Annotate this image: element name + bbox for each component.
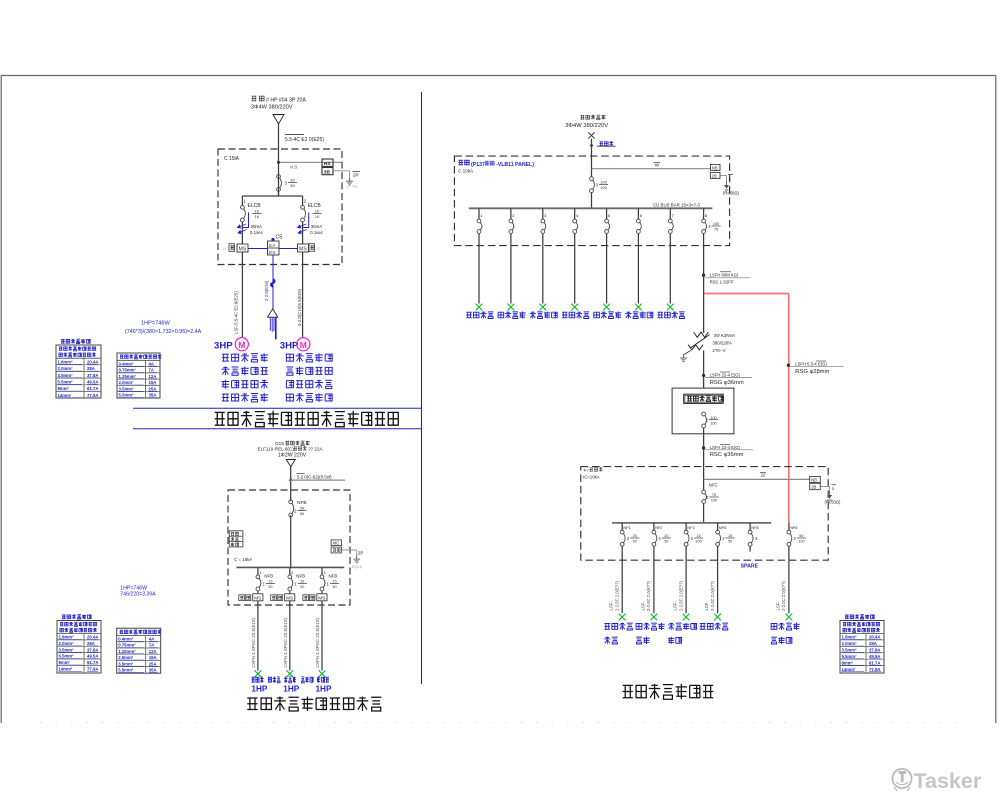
svg-text:Tasker: Tasker xyxy=(914,769,982,793)
svg-text:5: 5 xyxy=(608,213,611,218)
svg-text:0.1sec: 0.1sec xyxy=(250,230,264,235)
branch top bus D1 xyxy=(242,195,302,197)
main breaker D3 xyxy=(590,177,594,181)
svg-text:0.4mm²: 0.4mm² xyxy=(118,637,134,642)
panel dashed box D1 xyxy=(218,149,342,265)
svg-text:20: 20 xyxy=(664,534,668,538)
relay box NB D3 xyxy=(710,164,720,170)
svg-text:100: 100 xyxy=(600,185,607,190)
diagram3 header line1 CJK xyxy=(580,115,605,120)
meter name plate xyxy=(684,394,724,403)
svg-text:5.5mm²: 5.5mm² xyxy=(59,654,75,659)
svg-text:3: 3 xyxy=(729,176,732,181)
column divider blue vertical xyxy=(421,92,423,684)
branch 1 feeder wire down D2 xyxy=(257,601,259,671)
wire ELCB to MS right xyxy=(302,222,304,244)
svg-text:3.5mm²: 3.5mm² xyxy=(118,661,134,666)
wire 2B to earth D3 xyxy=(720,174,727,176)
branch 8 wire below breaker D3 xyxy=(703,233,705,245)
load 4 name blue line1 xyxy=(700,623,728,630)
branch 1 breaker NFB D2 xyxy=(256,575,260,579)
wire main vertical D1 upper xyxy=(278,124,280,196)
junction dot feeder label2 xyxy=(702,374,705,377)
svg-text:6: 6 xyxy=(640,213,643,218)
svg-text:49.5A: 49.5A xyxy=(87,654,98,659)
svg-text:O1S: O1S xyxy=(275,441,284,446)
svg-text:# HP #04 3P 20A: # HP #04 3P 20A xyxy=(266,98,306,104)
bottom branch 5 spare stub xyxy=(749,546,751,551)
meter label blue underlined xyxy=(599,141,613,146)
branch 2 drop wire D3 xyxy=(510,208,512,219)
copper busbar D3 xyxy=(469,207,713,209)
branch 4 breaker D3 xyxy=(573,219,577,223)
svg-text:35A: 35A xyxy=(149,393,157,398)
svg-text:NB: NB xyxy=(712,165,718,170)
svg-text:RSC 1 S2FF: RSC 1 S2FF xyxy=(710,280,734,285)
svg-text:1E: 1E xyxy=(255,209,260,214)
svg-text:1: 1 xyxy=(262,581,265,586)
branch 4 feeder to load D3 xyxy=(574,246,576,304)
bottom branch 5 drop xyxy=(749,523,751,531)
wire to NB box bottom xyxy=(704,478,810,480)
branch 7 existing-equipment label D3 xyxy=(658,312,685,319)
branch 1 wire drop D2 xyxy=(257,567,259,575)
svg-text:3.5mm²: 3.5mm² xyxy=(58,373,74,378)
svg-text:2-2.0C 2.0(E??): 2-2.0C 2.0(E??) xyxy=(646,581,651,611)
bottom branch 4 drop xyxy=(717,523,719,531)
svg-text:(R≤50Ω): (R≤50Ω) xyxy=(723,191,740,196)
door label group 5 blue D2 xyxy=(317,677,329,683)
svg-text:1.6mm²: 1.6mm² xyxy=(58,360,74,365)
svg-text:3B: 3B xyxy=(324,169,331,175)
load 3 name blue line2 xyxy=(668,637,682,644)
svg-text:8: 8 xyxy=(705,213,708,218)
contactor box MC D2 xyxy=(331,540,341,546)
branch 3 existing-equipment label D3 xyxy=(530,312,558,319)
relay box 2B D3 xyxy=(710,172,720,178)
wire right branch drop xyxy=(302,196,304,206)
svg-text:28A: 28A xyxy=(87,366,95,371)
electrode lines blue xyxy=(269,317,271,330)
svg-text:0.75mm²: 0.75mm² xyxy=(119,368,137,373)
svg-text:50: 50 xyxy=(728,540,732,544)
svg-text:100: 100 xyxy=(600,180,607,185)
branch 1 wire below breaker D3 xyxy=(478,233,480,245)
wire 3B to earth xyxy=(333,170,350,172)
svg-text:35A: 35A xyxy=(149,668,157,673)
svg-text:100: 100 xyxy=(798,540,804,544)
svg-text:NF6: NF6 xyxy=(790,525,797,530)
title1 新設交替運轉控制盤電源單線圖 xyxy=(215,411,399,427)
svg-text:30: 30 xyxy=(332,585,336,589)
bottom branch 3 wire to load xyxy=(685,546,687,613)
earth electrode D2 xyxy=(356,556,358,559)
contactor box EA ES xyxy=(268,241,280,255)
svg-text:30mA: 30mA xyxy=(251,224,263,229)
svg-text:50: 50 xyxy=(633,540,637,544)
svg-text:2-2.0(C-62)(0.5sf): 2-2.0(C-62)(0.5sf) xyxy=(297,475,332,480)
branch 1 wire to MS D2 xyxy=(257,591,259,594)
svg-text:LSF-: LSF- xyxy=(704,601,709,611)
wire to NB box D3 xyxy=(592,168,711,170)
load 3 name blue line1 xyxy=(668,623,697,630)
svg-text:380/220V-: 380/220V- xyxy=(712,340,733,345)
bottom branch 1 drop xyxy=(621,523,623,531)
svg-text:37.8A: 37.8A xyxy=(87,373,98,378)
branch 7 breaker D3 xyxy=(668,219,672,223)
svg-text:2: 2 xyxy=(294,508,297,513)
wire ampacity table bottom-left A xyxy=(62,615,91,620)
tap arrow D3 xyxy=(589,143,593,146)
panel name blue label D3 xyxy=(459,160,470,164)
svg-text:CS: CS xyxy=(276,235,284,241)
branch 5 load X D3 xyxy=(603,304,610,311)
svg-text:-VLB11 PANEL): -VLB11 PANEL) xyxy=(496,162,534,168)
CS node dot blue xyxy=(272,238,274,240)
svg-text:2B: 2B xyxy=(712,173,717,178)
svg-text:2-2.0C 2.0(E??): 2-2.0C 2.0(E??) xyxy=(710,581,715,611)
svg-text:30: 30 xyxy=(268,585,272,589)
transformer neutral earth stub xyxy=(684,350,691,354)
svg-text:77.9A: 77.9A xyxy=(87,393,98,398)
bottom branch 4 breaker xyxy=(716,530,720,534)
svg-text:12A: 12A xyxy=(149,649,157,654)
svg-text:ELF119·REL 6(C),: ELF119·REL 6(C), xyxy=(258,446,296,451)
junction dot feeder label1 xyxy=(702,274,705,277)
branch 1 aux boxes D2 xyxy=(239,595,245,601)
node junction at HS wire xyxy=(277,161,279,163)
door label group 3 blue D2 xyxy=(284,677,296,683)
red wire junction dot xyxy=(787,364,790,367)
svg-text:2: 2 xyxy=(291,570,294,575)
svg-text:MS: MS xyxy=(239,247,247,253)
diagram1 source header CJK+spec line1 xyxy=(252,96,265,101)
bottom branch 1 wire to load xyxy=(621,546,623,613)
svg-text:LSF-: LSF- xyxy=(775,601,780,611)
branch 2 load X D3 xyxy=(508,304,515,311)
branch 2 wire below breaker D3 xyxy=(510,233,512,245)
svg-text:2?0--V: 2?0--V xyxy=(712,348,725,353)
svg-text:100: 100 xyxy=(710,416,716,420)
svg-text:14mm²: 14mm² xyxy=(59,667,73,672)
svg-text:1K: 1K xyxy=(255,214,260,219)
red wire vertical xyxy=(788,294,790,523)
branch 5 feeder to load D3 xyxy=(606,246,608,304)
svg-text:NF5: NF5 xyxy=(719,525,726,530)
svg-text:2.0mm²: 2.0mm² xyxy=(59,641,75,646)
svg-text:1Φ2W 220V: 1Φ2W 220V xyxy=(278,452,307,458)
svg-text:2: 2 xyxy=(304,199,307,204)
svg-text:RSG φ36mm: RSG φ36mm xyxy=(710,380,744,386)
incoming feeder triangle D2 xyxy=(286,460,295,467)
title3 新設電源單線圖 xyxy=(623,684,714,700)
branch 1 load X D3 xyxy=(476,304,483,311)
branch 2 feeder to load D3 xyxy=(510,246,512,304)
svg-text:20.4A: 20.4A xyxy=(87,360,98,365)
earth electrode D1 top-right xyxy=(349,178,351,181)
svg-text:LSFH-1.6PVC 22.6(E19): LSFH-1.6PVC 22.6(E19) xyxy=(251,617,256,667)
svg-text:1HP: 1HP xyxy=(251,684,267,693)
svg-text:CU BUS BAR 15×3×?-3: CU BUS BAR 15×3×?-3 xyxy=(653,203,700,208)
svg-text:(P137: (P137 xyxy=(471,162,485,168)
blue control wire right xyxy=(279,248,298,250)
svg-text:15A: 15A xyxy=(149,380,157,385)
svg-text:61.7A: 61.7A xyxy=(869,660,880,665)
wire ampacity table top-left A xyxy=(61,339,90,344)
title2 新設防火門電源單線圖 xyxy=(247,697,381,712)
svg-text:1K: 1K xyxy=(315,214,320,219)
branch 3 breaker NFB D2 xyxy=(320,575,324,579)
svg-text:NF1: NF1 xyxy=(623,525,630,530)
branch 3 feeder wire down D2 xyxy=(321,601,323,671)
svg-text:LSFH 60M KG): LSFH 60M KG) xyxy=(710,273,739,278)
incoming feeder triangle D1 xyxy=(273,115,284,125)
branch 4 existing-equipment label D3 xyxy=(562,312,589,319)
svg-text:LSFH 22-4 E(G): LSFH 22-4 E(G) xyxy=(710,373,741,378)
branch 3 wire to MS D2 xyxy=(321,591,323,594)
bottom branch 2 wire to load xyxy=(653,546,655,613)
cable tap label D2 xyxy=(297,473,305,475)
branch 3 feeder to load D3 xyxy=(542,246,544,304)
svg-text:15: 15 xyxy=(728,534,732,538)
svg-text:3: 3 xyxy=(596,182,599,187)
svg-text:20: 20 xyxy=(290,178,295,183)
branch 5 drop wire D3 xyxy=(606,208,608,219)
svg-text:4-2.0(C19)5.5(E25): 4-2.0(C19)5.5(E25) xyxy=(297,288,302,326)
float switch triangle xyxy=(268,309,278,317)
blue wire ES down xyxy=(272,255,274,309)
wire main to bus D2 xyxy=(290,515,292,567)
blue control wire left xyxy=(248,248,268,250)
bottom branch 3 drop xyxy=(685,523,687,531)
aux box below MC D2 xyxy=(331,547,341,553)
relay box 3B xyxy=(322,168,333,175)
svg-text:30mA: 30mA xyxy=(311,224,323,229)
svg-text:2: 2 xyxy=(706,495,709,500)
branch bus D2 xyxy=(236,566,344,568)
door label group 2 blue D2 xyxy=(268,677,280,683)
load 5 name blue line2 xyxy=(771,637,792,644)
svg-text:77.9A: 77.9A xyxy=(87,667,98,672)
svg-text:RSG φ28mm: RSG φ28mm xyxy=(795,369,829,375)
svg-text:8mm²: 8mm² xyxy=(58,386,70,391)
branch 2 wire drop D2 xyxy=(289,567,291,575)
svg-text:2: 2 xyxy=(722,536,725,541)
wire into bottom panel xyxy=(703,467,705,490)
svg-text:HS: HS xyxy=(324,161,331,167)
branch 1 load point X D2 xyxy=(255,670,262,677)
svg-text:LSF-: LSF- xyxy=(609,601,614,611)
svg-text:2-2.0(E19): 2-2.0(E19) xyxy=(264,280,269,301)
svg-text:2: 2 xyxy=(627,536,630,541)
svg-text:(746*3)/(380×1.732×0.95)=2.4A: (746*3)/(380×1.732×0.95)=2.4A xyxy=(125,329,202,335)
trip jumper blue right xyxy=(303,213,309,228)
svg-text:3.5mm²: 3.5mm² xyxy=(59,647,75,652)
branch 2 breaker D3 xyxy=(509,219,513,223)
branch 3 wire below breaker D3 xyxy=(542,233,544,245)
junction dot feeder label3 xyxy=(702,447,705,450)
svg-text:20.4A: 20.4A xyxy=(87,635,98,640)
svg-text:2.0mm²: 2.0mm² xyxy=(58,366,74,371)
svg-text:37.8A: 37.8A xyxy=(869,648,880,653)
branch 2 existing-equipment label D3 xyxy=(498,312,526,319)
svg-text:3HP: 3HP xyxy=(280,340,299,351)
feeder wire branch8 upper xyxy=(703,246,705,294)
wire X to arrow xyxy=(591,139,593,156)
svg-text:∗?: ∗? xyxy=(583,468,589,473)
svg-text:100: 100 xyxy=(695,540,701,544)
branch 7 feeder to load D3 xyxy=(669,246,671,304)
tap arrow D2 xyxy=(289,477,293,480)
bottom busbar xyxy=(612,522,771,524)
branch 6 drop wire D3 xyxy=(637,208,639,219)
svg-text:3HP: 3HP xyxy=(214,340,233,351)
wire to HS box xyxy=(279,161,342,163)
svg-text:1: 1 xyxy=(259,570,262,575)
wire breaker to busbar D3 xyxy=(591,193,593,209)
load 2 point X xyxy=(651,614,658,621)
wire ampacity table top-left B xyxy=(117,353,160,398)
wire MC to earth D2 xyxy=(341,549,356,551)
title1 underline top blue xyxy=(133,407,422,409)
branch 6 wire below breaker D3 xyxy=(637,233,639,245)
wire main vertical D3 to breaker xyxy=(591,156,593,177)
svg-text:2: 2 xyxy=(658,536,661,541)
flex conduit blob blue xyxy=(271,279,274,286)
branch 2 aux boxes D2 xyxy=(271,595,277,601)
svg-text:8mm²: 8mm² xyxy=(59,660,71,665)
branch 2 MS box D2 xyxy=(285,594,295,601)
svg-text:NFB: NFB xyxy=(329,574,338,579)
svg-text:746/220=3.39A: 746/220=3.39A xyxy=(120,591,156,597)
wire left branch drop xyxy=(241,196,243,206)
svg-text:3.5mm²: 3.5mm² xyxy=(119,386,135,391)
wire MS right down to motor xyxy=(302,252,304,338)
trip jumper blue left xyxy=(243,213,249,228)
svg-text:2B: 2B xyxy=(811,485,816,490)
svg-text:NF3: NF3 xyxy=(687,525,694,530)
svg-text:C = 15kA: C = 15kA xyxy=(234,557,252,562)
svg-text:2-2.0C 2.0(E??): 2-2.0C 2.0(E??) xyxy=(614,581,619,611)
svg-text:NFB: NFB xyxy=(264,574,273,579)
utility point X mark xyxy=(588,132,594,138)
motor M right xyxy=(297,338,310,351)
svg-text:C 15lA: C 15lA xyxy=(224,156,240,162)
svg-text:5.5mm²: 5.5mm² xyxy=(842,654,858,659)
wire main vertical D2 top xyxy=(290,467,292,502)
load 1 name blue line1 xyxy=(604,623,632,630)
load 5 point X xyxy=(786,614,793,621)
branch 1 breaker D3 xyxy=(477,219,481,223)
svg-text:1: 1 xyxy=(244,199,247,204)
transformer TR zigzag secondary xyxy=(688,345,703,350)
feeder wire into transformer xyxy=(703,294,705,334)
wire to bottom busbar xyxy=(703,503,705,523)
red-fed branch drop xyxy=(788,522,790,531)
svg-text:LSF-5.5-4C E2.0(E25): LSF-5.5-4C E2.0(E25) xyxy=(234,291,239,334)
svg-text:1: 1 xyxy=(327,581,330,586)
bottom branch 2 drop xyxy=(653,523,655,531)
feeder wire below transformer xyxy=(703,351,705,389)
svg-text:14mm²: 14mm² xyxy=(842,667,856,672)
svg-text:W: W xyxy=(655,163,660,169)
load 2 name blue line2 xyxy=(636,637,650,644)
breaker ELCB left xyxy=(241,205,245,209)
svg-text:77.9A: 77.9A xyxy=(869,667,880,672)
svg-text:2C: 2C xyxy=(316,246,321,251)
magnetic switch MS left xyxy=(237,244,248,252)
bottom branch 4 wire to load xyxy=(717,546,719,613)
svg-text:LSFH 5.5-4 E(G): LSFH 5.5-4 E(G) xyxy=(795,361,827,366)
svg-text:12A: 12A xyxy=(149,374,157,379)
svg-text:(? ?Ω: (? ?Ω xyxy=(347,184,357,189)
earth arrow bottom xyxy=(829,491,831,495)
svg-text:3: 3 xyxy=(544,213,547,218)
svg-text:2-2.0C 2.0(E??): 2-2.0C 2.0(E??) xyxy=(781,581,786,611)
svg-text:LSF-: LSF- xyxy=(640,601,645,611)
branch 2 breaker NFB D2 xyxy=(288,575,292,579)
svg-text:30: 30 xyxy=(300,585,304,589)
svg-text:50: 50 xyxy=(300,511,305,516)
meter breaker D3 xyxy=(702,412,706,416)
svg-text:2.0mm²: 2.0mm² xyxy=(118,655,134,660)
svg-text:3Φ K3NVA: 3Φ K3NVA xyxy=(714,333,735,338)
svg-text:1HP: 1HP xyxy=(316,684,332,693)
cable label 5.5-4C E2 xyxy=(285,134,304,136)
svg-text:20.4A: 20.4A xyxy=(869,635,880,640)
svg-text:14mm²: 14mm² xyxy=(58,393,72,398)
svg-text:N B: N B xyxy=(290,165,297,170)
svg-text:7: 7 xyxy=(672,213,675,218)
label 2P near earth D1 xyxy=(353,171,361,173)
svg-text:28A: 28A xyxy=(87,641,95,646)
wire 2B to earth bottom xyxy=(820,486,829,488)
svg-text:150: 150 xyxy=(713,222,719,226)
svg-text:M: M xyxy=(238,340,245,350)
bottom branch 5 breaker xyxy=(748,530,752,534)
svg-text:5.5-4C E2 0(E25): 5.5-4C E2 0(E25) xyxy=(285,137,324,143)
relay box HS xyxy=(322,159,333,166)
branch 3 drop wire D3 xyxy=(542,208,544,219)
svg-text:49.5A: 49.5A xyxy=(869,654,880,659)
svg-text:75: 75 xyxy=(714,228,718,232)
svg-text:1.6mm²: 1.6mm² xyxy=(59,635,75,640)
svg-text:0.75mm²: 0.75mm² xyxy=(118,643,136,648)
tap wire horizontal D2 xyxy=(290,479,345,481)
wire ELCB to MS left xyxy=(241,222,243,244)
branch 4 wire below breaker D3 xyxy=(574,233,576,245)
relay box NB bottom xyxy=(810,476,821,482)
svg-text:3Φ4W 380/220V: 3Φ4W 380/220V xyxy=(251,105,293,111)
svg-text:100: 100 xyxy=(711,499,717,503)
feeder label1 leader xyxy=(705,277,750,279)
branch 1 drop wire D3 xyxy=(478,208,480,219)
svg-text:3: 3 xyxy=(793,536,796,541)
svg-text:EA: EA xyxy=(269,243,276,249)
svg-text:(R≤50Ω): (R≤50Ω) xyxy=(825,500,842,505)
aux box H left xyxy=(229,244,235,252)
frame bottom faint line xyxy=(40,722,960,724)
svg-text:?? 22A: ?? 22A xyxy=(308,446,323,451)
svg-text:NFC: NFC xyxy=(709,482,718,487)
svg-text:5.5mm²: 5.5mm² xyxy=(119,393,135,398)
svg-text:3: 3 xyxy=(708,224,711,229)
load 1 point X xyxy=(619,614,626,621)
leakage arrows blue left xyxy=(238,224,247,234)
branch 6 existing-equipment label D3 xyxy=(625,312,653,319)
svg-text:5.5mm²: 5.5mm² xyxy=(58,380,74,385)
svg-text:3: 3 xyxy=(832,486,835,491)
